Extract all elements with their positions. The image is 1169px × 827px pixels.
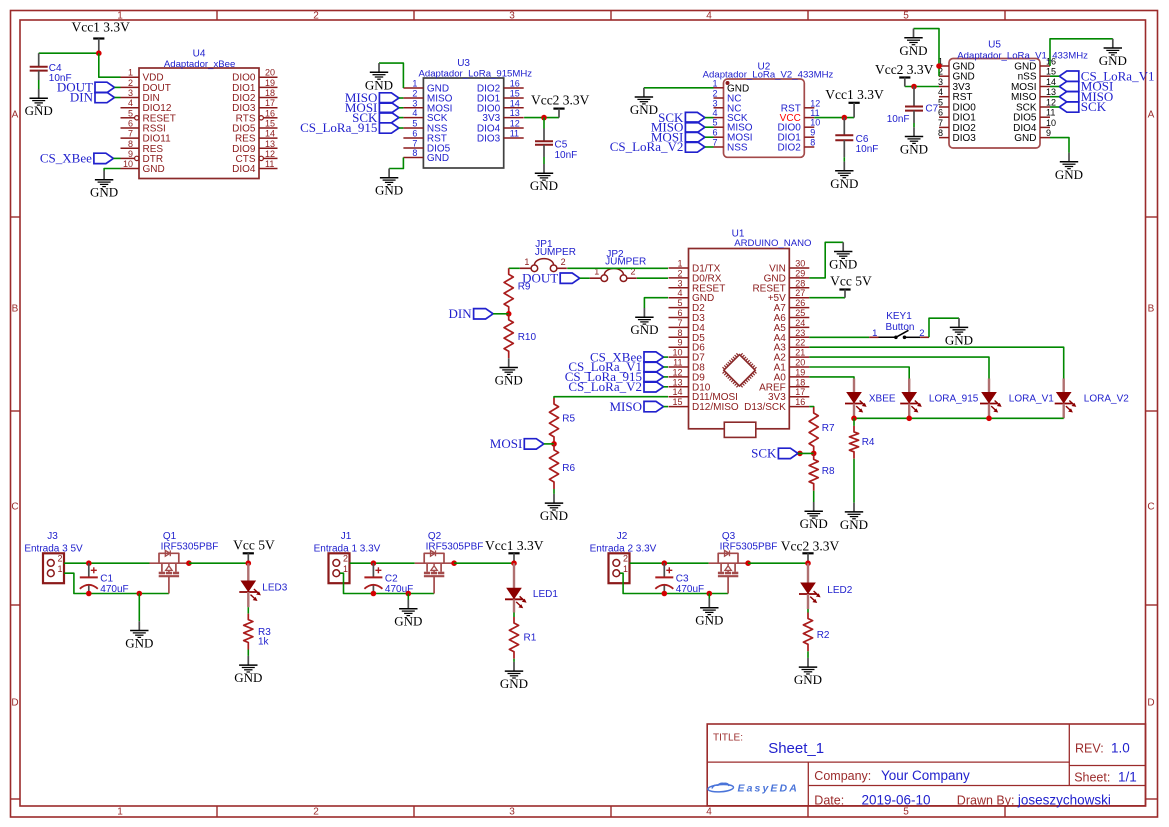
wire — [115, 97, 121, 99]
svg-text:A: A — [12, 110, 19, 121]
pin 2 NC — [712, 89, 741, 105]
net flag MISO — [1059, 89, 1113, 104]
svg-text:GND: GND — [829, 257, 857, 272]
svg-text:GND: GND — [427, 153, 449, 164]
pin 9 D6 — [669, 338, 706, 354]
svg-text:GND: GND — [394, 614, 422, 629]
IC U2 Adaptador_LoRa_V2_433MHz — [703, 62, 834, 158]
svg-text:GND: GND — [25, 103, 53, 118]
connector J2 Entrada 2 3.3V — [590, 531, 657, 583]
svg-text:C: C — [1147, 502, 1154, 513]
pin 2 D0/RX — [669, 268, 722, 284]
svg-text:3: 3 — [677, 278, 682, 288]
svg-text:10: 10 — [672, 348, 682, 358]
wire — [853, 459, 855, 503]
ground — [630, 88, 658, 117]
svg-text:5: 5 — [903, 807, 909, 818]
svg-text:2: 2 — [712, 89, 717, 99]
pin 8 DIO3 — [938, 128, 976, 144]
pin 10 DIO4 — [1013, 118, 1056, 134]
pin 4 SCK — [403, 108, 447, 124]
pin 15 nSS — [1018, 67, 1056, 83]
svg-text:16: 16 — [795, 397, 805, 407]
svg-text:2: 2 — [343, 554, 348, 564]
wire — [138, 594, 140, 622]
svg-text:GND: GND — [899, 43, 927, 58]
svg-text:9: 9 — [810, 128, 815, 138]
frame column ticks top/bottom — [217, 11, 1005, 817]
net flag DIN — [70, 90, 115, 105]
resistor R10 — [504, 314, 536, 359]
svg-text:DIO3: DIO3 — [477, 134, 501, 145]
svg-text:15: 15 — [265, 119, 275, 129]
pin 8 RES — [121, 139, 164, 155]
svg-text:GND: GND — [143, 164, 165, 175]
pin 22 A3 — [774, 338, 810, 354]
resistor R5 — [549, 398, 575, 444]
svg-text:16: 16 — [265, 108, 275, 118]
svg-text:12: 12 — [265, 149, 275, 159]
svg-text:15: 15 — [510, 89, 520, 99]
svg-text:8: 8 — [810, 138, 815, 148]
junction — [406, 591, 412, 597]
svg-text:15: 15 — [1046, 67, 1056, 77]
svg-text:23: 23 — [795, 328, 805, 338]
svg-text:GND: GND — [530, 178, 558, 193]
svg-text:2: 2 — [623, 554, 628, 564]
svg-text:IRF5305PBF: IRF5305PBF — [161, 541, 219, 552]
wire — [399, 117, 404, 119]
svg-text:Your Company: Your Company — [881, 768, 970, 783]
svg-text:B: B — [1148, 304, 1155, 315]
pin 15 DIO5 — [232, 119, 277, 135]
svg-text:Entrada 2 3.3V: Entrada 2 3.3V — [590, 543, 657, 554]
svg-text:1: 1 — [412, 79, 417, 89]
pin 6 D3 — [669, 308, 706, 324]
svg-text:SCK: SCK — [1081, 99, 1107, 114]
pin 5 D2 — [669, 298, 706, 314]
resistor R3 — [244, 614, 272, 650]
svg-text:9: 9 — [1046, 128, 1051, 138]
wire — [580, 277, 590, 279]
wire — [807, 651, 809, 658]
svg-text:7: 7 — [412, 139, 417, 149]
svg-text:Vcc1 3.3V: Vcc1 3.3V — [485, 538, 544, 553]
svg-text:14: 14 — [510, 98, 520, 108]
svg-text:GND: GND — [500, 676, 528, 691]
pin 19 A0 — [774, 367, 810, 383]
svg-text:25: 25 — [795, 308, 805, 318]
svg-text:11: 11 — [1046, 108, 1055, 118]
svg-text:Entrada 1 3.3V: Entrada 1 3.3V — [314, 543, 381, 554]
svg-text:J2: J2 — [617, 531, 628, 542]
svg-text:11: 11 — [810, 108, 819, 118]
junction — [797, 451, 803, 457]
wire — [620, 573, 728, 593]
svg-text:18: 18 — [795, 377, 805, 387]
svg-text:8: 8 — [412, 148, 417, 158]
svg-text:5: 5 — [677, 298, 682, 308]
pin 26 A7 — [774, 298, 810, 314]
svg-text:D13/SCK: D13/SCK — [744, 402, 786, 413]
svg-text:10nF: 10nF — [555, 150, 578, 161]
pin 3 MOSI — [403, 98, 452, 114]
pin 20 A1 — [774, 358, 810, 374]
wire — [247, 650, 249, 656]
svg-text:DIN: DIN — [70, 90, 94, 105]
wire — [567, 267, 668, 269]
svg-text:MOSI: MOSI — [490, 436, 523, 451]
LED LED3 — [239, 563, 287, 607]
svg-text:4: 4 — [128, 98, 133, 108]
svg-text:Vcc2 3.3V: Vcc2 3.3V — [531, 93, 590, 108]
ground — [800, 502, 828, 531]
svg-text:26: 26 — [795, 298, 805, 308]
pin 11 VCC — [780, 108, 820, 124]
svg-text:7: 7 — [128, 129, 133, 139]
pin 4 DIO12 — [121, 98, 172, 114]
junction — [936, 63, 942, 69]
pin 1 VDD — [121, 68, 164, 84]
svg-text:16: 16 — [510, 79, 520, 89]
ground — [540, 494, 568, 523]
svg-text:A: A — [1148, 110, 1155, 121]
resistor R7 — [809, 407, 835, 453]
svg-text:12: 12 — [672, 367, 682, 377]
junction — [506, 311, 512, 317]
power Vcc 5V — [233, 537, 275, 563]
svg-text:11: 11 — [510, 129, 519, 139]
svg-text:9: 9 — [677, 338, 682, 348]
IC U3 Adaptador_LoRa_915MHz — [403, 58, 532, 168]
pin 18 AREF — [759, 377, 809, 393]
pin 17 3V3 — [768, 387, 809, 403]
svg-text:MISO: MISO — [609, 399, 642, 414]
svg-text:8: 8 — [677, 328, 682, 338]
junction — [707, 591, 713, 597]
svg-text:3: 3 — [412, 98, 417, 108]
svg-text:10: 10 — [123, 159, 133, 169]
svg-text:LORA_915: LORA_915 — [929, 394, 979, 405]
power Vcc2 3.3V — [531, 93, 590, 118]
svg-text:GND: GND — [630, 102, 658, 117]
svg-text:1: 1 — [872, 328, 877, 339]
ground — [125, 621, 153, 650]
transistor Q3 IRF5305PBF — [709, 531, 778, 593]
power Vcc1 3.3V — [825, 87, 884, 118]
wire — [1050, 86, 1059, 88]
wire — [1050, 138, 1069, 153]
svg-text:3: 3 — [509, 807, 515, 818]
wire — [708, 594, 710, 599]
wire — [809, 406, 813, 408]
pin 14 D11/MOSI — [669, 387, 738, 403]
transistor Q1 IRF5305PBF — [150, 531, 219, 593]
ground — [25, 89, 53, 118]
ground — [899, 29, 927, 58]
pin 2 MISO — [403, 89, 452, 105]
svg-text:Vcc 5V: Vcc 5V — [830, 273, 872, 288]
wire — [543, 118, 545, 129]
junction — [551, 441, 557, 447]
frame row ticks left/right — [11, 217, 1158, 799]
wire — [807, 609, 809, 613]
pin 7 D4 — [669, 318, 706, 334]
junction — [986, 416, 992, 422]
svg-text:2: 2 — [313, 11, 319, 22]
svg-text:4: 4 — [677, 288, 682, 298]
svg-text:XBEE: XBEE — [869, 394, 896, 405]
svg-text:3V3: 3V3 — [482, 113, 500, 124]
svg-text:U4: U4 — [193, 49, 206, 60]
U1 usb connector icon — [724, 422, 756, 437]
ground — [365, 63, 393, 92]
svg-text:2019-06-10: 2019-06-10 — [862, 793, 931, 808]
capacitor C7 — [887, 87, 939, 125]
svg-text:Sheet:: Sheet: — [1074, 771, 1110, 785]
LED LED1 — [505, 563, 558, 612]
svg-text:R1: R1 — [524, 633, 537, 644]
svg-text:19: 19 — [265, 78, 275, 88]
svg-text:8: 8 — [938, 128, 943, 138]
wire — [104, 169, 120, 171]
svg-text:5: 5 — [712, 118, 717, 128]
svg-text:10: 10 — [810, 118, 820, 128]
pin 16 RTS — [236, 108, 278, 124]
svg-text:Entrada 3 5V: Entrada 3 5V — [24, 543, 83, 554]
svg-text:C7: C7 — [925, 104, 938, 115]
svg-text:D: D — [11, 698, 18, 709]
svg-text:R6: R6 — [562, 463, 575, 474]
ground — [495, 358, 523, 387]
pin 6 DIO1 — [938, 108, 976, 124]
svg-text:J1: J1 — [341, 531, 352, 542]
pin 10 GND — [121, 159, 165, 175]
svg-text:REV:: REV: — [1075, 742, 1104, 756]
LED LORA_V2 — [1055, 379, 1130, 419]
pin 12 SCK — [1016, 98, 1056, 114]
svg-text:CS_LoRa_915: CS_LoRa_915 — [300, 120, 377, 135]
svg-text:C5: C5 — [555, 140, 568, 151]
junction — [842, 115, 848, 121]
svg-text:R8: R8 — [822, 466, 835, 477]
pin 9 DIO1 — [777, 128, 815, 144]
svg-text:R2: R2 — [817, 630, 830, 641]
svg-text:1: 1 — [712, 78, 717, 88]
svg-text:U3: U3 — [457, 58, 470, 69]
pin 4 RST — [938, 87, 973, 103]
pin 13 MISO — [1011, 87, 1056, 103]
svg-text:CS_XBee: CS_XBee — [40, 151, 92, 166]
pin 1 GND — [938, 57, 975, 73]
ground — [829, 242, 857, 271]
net flag CS_XBee — [590, 349, 664, 364]
svg-text:1: 1 — [623, 564, 628, 574]
pin 16 DIO2 — [477, 79, 524, 95]
svg-text:JUMPER: JUMPER — [605, 257, 646, 268]
svg-text:IRF5305PBF: IRF5305PBF — [426, 541, 484, 552]
svg-text:4: 4 — [712, 108, 717, 118]
wire — [399, 97, 404, 99]
capacitor C1 470uF — [80, 563, 129, 595]
transistor Q2 IRF5305PBF — [415, 531, 484, 593]
LED LORA_V1 — [980, 379, 1054, 419]
svg-text:17: 17 — [265, 98, 275, 108]
svg-text:C: C — [11, 502, 18, 513]
svg-text:14: 14 — [265, 129, 275, 139]
junction — [451, 560, 457, 566]
wire — [399, 127, 404, 129]
pin 20 DIO0 — [232, 68, 277, 84]
wire — [809, 347, 1063, 378]
wire — [39, 52, 99, 54]
capacitor C2 470uF — [364, 563, 413, 595]
pin 14 MOSI — [1011, 77, 1056, 93]
wire — [1050, 96, 1059, 98]
svg-text:12: 12 — [810, 98, 820, 108]
jumper JP2 — [590, 249, 647, 282]
wire — [809, 336, 869, 338]
junction — [906, 416, 912, 422]
junction — [662, 560, 668, 566]
svg-text:LORA_V1: LORA_V1 — [1009, 394, 1054, 405]
svg-text:3: 3 — [938, 77, 943, 87]
wire — [340, 573, 434, 593]
wire — [664, 406, 669, 408]
connector J3 Entrada 3 5V — [24, 531, 83, 583]
wire — [64, 573, 169, 593]
svg-text:D: D — [1147, 698, 1154, 709]
pin 27 +5V — [768, 288, 810, 304]
svg-text:TITLE:: TITLE: — [713, 733, 743, 744]
net flag MOSI — [345, 100, 399, 115]
wire — [247, 607, 249, 613]
resistor R8 — [809, 453, 835, 490]
resistor R4 — [849, 426, 875, 459]
ground — [1055, 153, 1083, 182]
svg-text:15: 15 — [672, 397, 682, 407]
net flag DOUT — [522, 270, 580, 285]
pin 9 DTR — [121, 149, 164, 165]
svg-text:GND: GND — [830, 176, 858, 191]
svg-text:U5: U5 — [988, 40, 1001, 51]
wire — [853, 418, 855, 426]
wire — [705, 136, 714, 138]
junction — [911, 84, 917, 90]
wire — [809, 242, 843, 278]
pin 2 GND — [938, 67, 975, 83]
svg-text:2: 2 — [313, 807, 319, 818]
svg-text:GND: GND — [1055, 167, 1083, 182]
wire — [379, 63, 403, 88]
pin 6 RST — [403, 129, 447, 145]
pin 11 D8 — [669, 358, 706, 374]
IC U5 Adaptador_LoRa_V1_433MHz — [938, 40, 1088, 149]
svg-text:R5: R5 — [562, 414, 575, 425]
svg-text:5: 5 — [128, 108, 133, 118]
pin 13 DIO9 — [232, 139, 277, 155]
pin 21 A2 — [774, 348, 810, 364]
svg-text:R7: R7 — [822, 423, 835, 434]
ground — [234, 656, 262, 685]
IC U4 Adaptador_xBee — [121, 49, 278, 179]
svg-text:5: 5 — [412, 119, 417, 129]
svg-text:Company:: Company: — [814, 769, 871, 783]
wire — [454, 562, 514, 564]
svg-text:3: 3 — [509, 11, 515, 22]
button KEY1 — [809, 311, 929, 339]
svg-text:GND: GND — [900, 142, 928, 157]
svg-text:16: 16 — [1046, 57, 1056, 67]
wire — [798, 452, 814, 454]
svg-text:Vcc2 3.3V: Vcc2 3.3V — [875, 62, 934, 77]
wire — [809, 367, 909, 379]
svg-text:9: 9 — [128, 149, 133, 159]
capacitor C6 — [835, 118, 878, 158]
pin 19 DIO1 — [232, 78, 277, 94]
svg-text:R10: R10 — [518, 332, 537, 343]
svg-text:CS_LoRa_V2: CS_LoRa_V2 — [568, 379, 642, 394]
pin 3 DIN — [121, 88, 160, 104]
svg-text:2: 2 — [412, 89, 417, 99]
svg-text:1/1: 1/1 — [1118, 770, 1137, 785]
svg-text:GND: GND — [90, 185, 118, 200]
pin 5 RESET — [121, 108, 176, 124]
svg-text:GND: GND — [695, 613, 723, 628]
svg-text:29: 29 — [795, 268, 805, 278]
svg-text:Vcc2 3.3V: Vcc2 3.3V — [781, 538, 840, 553]
pin 25 A6 — [774, 308, 810, 324]
pin 3 3V3 — [938, 77, 971, 93]
svg-text:KEY1: KEY1 — [886, 311, 912, 322]
ground — [830, 162, 858, 191]
svg-text:GND: GND — [630, 322, 658, 337]
svg-text:4: 4 — [412, 108, 417, 118]
wire — [905, 86, 939, 88]
svg-text:4: 4 — [938, 87, 943, 97]
wire — [389, 158, 403, 169]
U2 pin1 mark — [726, 81, 730, 85]
junction — [805, 560, 811, 566]
svg-text:Vcc1 3.3V: Vcc1 3.3V — [825, 87, 884, 102]
svg-text:Drawn By:: Drawn By: — [957, 794, 1015, 808]
pin 10 D7 — [669, 348, 706, 364]
wire — [705, 146, 714, 148]
pin 14 DIO0 — [477, 98, 524, 114]
net flag MOSI — [651, 129, 705, 144]
wire — [553, 489, 555, 494]
wire — [189, 562, 248, 564]
svg-text:GND: GND — [800, 516, 828, 531]
ground — [900, 127, 928, 156]
wire — [809, 357, 989, 378]
svg-text:1: 1 — [128, 68, 133, 78]
svg-text:5: 5 — [903, 11, 909, 22]
junction — [186, 560, 192, 566]
net flag DIN — [448, 306, 493, 321]
frame row labels — [11, 110, 1154, 709]
wire — [644, 87, 714, 89]
svg-text:JUMPER: JUMPER — [535, 247, 576, 258]
wire — [1050, 75, 1059, 77]
svg-text:Vcc1 3.3V: Vcc1 3.3V — [71, 20, 130, 35]
pin 9 GND — [1014, 128, 1051, 144]
svg-text:DIO4: DIO4 — [232, 164, 256, 175]
ground — [945, 318, 973, 347]
pin 1 GND — [403, 79, 449, 95]
ground — [394, 600, 422, 629]
wire — [813, 491, 815, 502]
